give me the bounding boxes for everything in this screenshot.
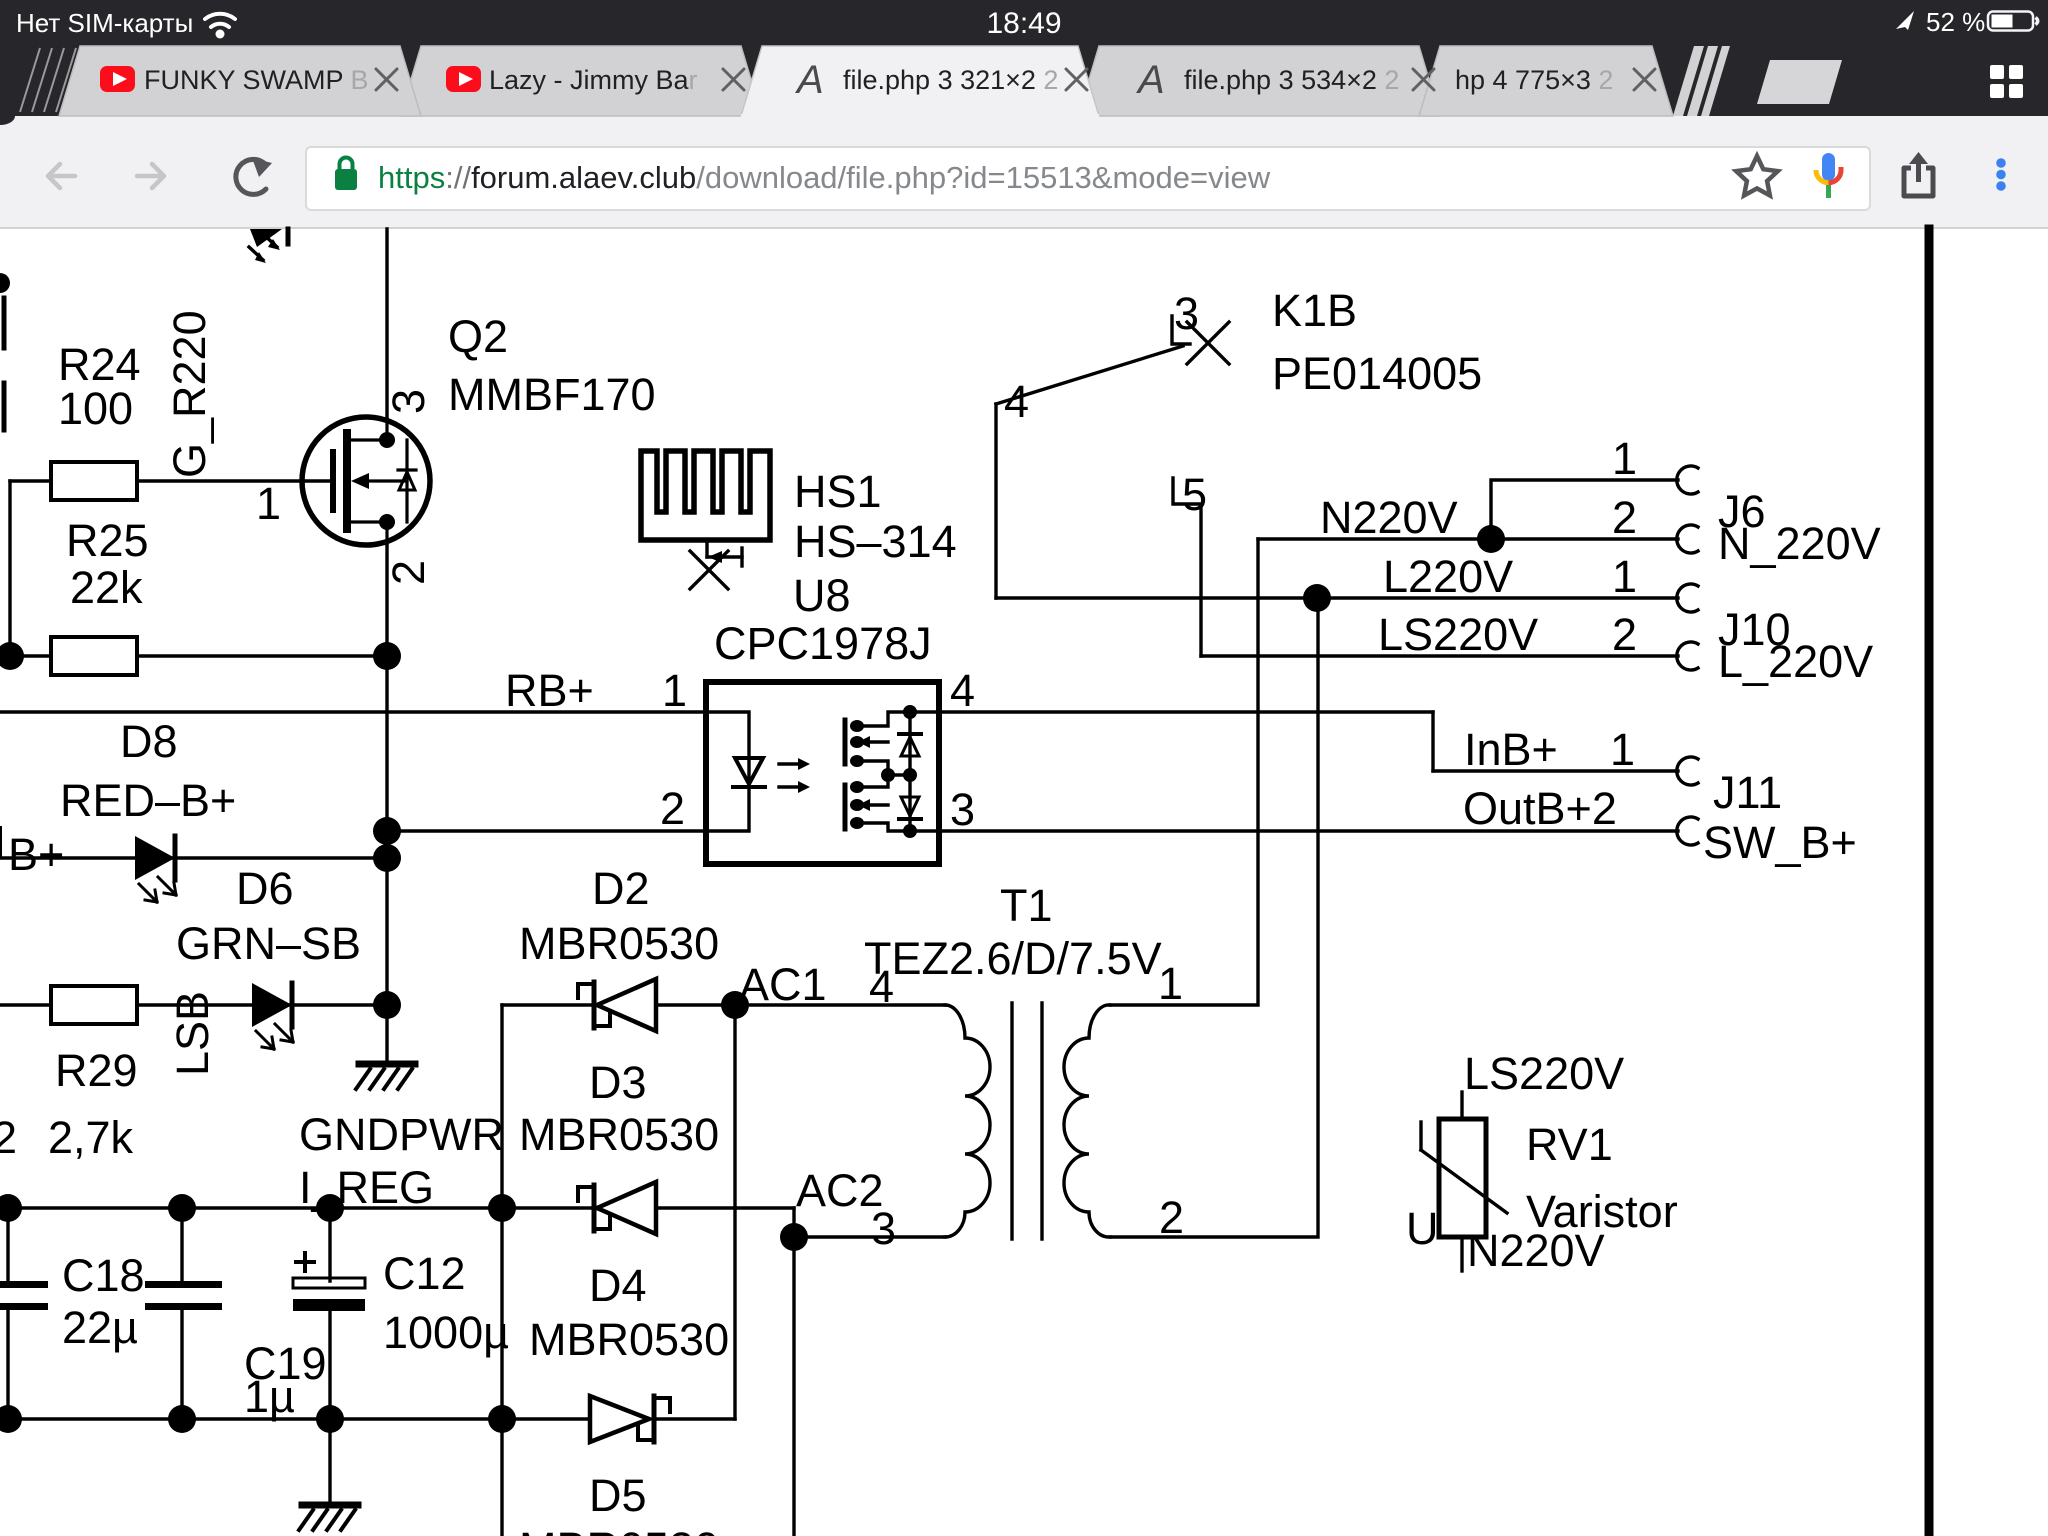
svg-text:2: 2 (0, 1112, 17, 1163)
svg-text:2: 2 (383, 560, 434, 585)
svg-text:OutB+2: OutB+2 (1463, 783, 1617, 834)
capacitor C12 (polarized) (293, 1278, 365, 1288)
node: bus/U8 pin2 junction (373, 817, 401, 845)
node: R25/bus junction (373, 642, 401, 670)
svg-text:U: U (1406, 1203, 1439, 1254)
wire: relay pin 4 vertical (994, 404, 997, 598)
wire: L220V row to J10 pin 1 (996, 596, 1678, 599)
star icon (1736, 156, 1778, 195)
svg-text:2: 2 (1612, 609, 1637, 660)
corner remnant of stacked tabs (0, 116, 15, 125)
svg-text:A: A (1136, 58, 1165, 102)
wire: main vertical bus from Q2 source down to GNDPWR (385, 545, 388, 1063)
transformer T1 primary winding (945, 1005, 990, 1237)
transistor Q2 MOSFET (302, 417, 430, 545)
svg-text:D2: D2 (592, 863, 650, 914)
svg-text:R29: R29 (55, 1045, 138, 1096)
menu dots (1996, 158, 2006, 168)
tab 4 file.php 534 (inactive) (1078, 46, 1440, 116)
wire: D3 to AC2 jog (656, 1206, 794, 1209)
svg-text:RED–B+: RED–B+ (60, 775, 236, 826)
transformer T1 core (1010, 1003, 1013, 1239)
node: N220V junction (1477, 525, 1505, 553)
wire: vertical bus D2-D3 (500, 1005, 503, 1208)
node: AC2 (780, 1223, 808, 1251)
wire: left capacitor bottom lead (6, 1308, 9, 1419)
svg-text:U8: U8 (793, 570, 851, 621)
location arrow (1896, 11, 1914, 30)
back arrow (disabled) (48, 164, 75, 188)
node: C12 bottom junction (316, 1405, 344, 1433)
svg-text:hp 4 775×3 2: hp 4 775×3 2 (1455, 65, 1613, 95)
svg-text:MBR0530: MBR0530 (529, 1314, 729, 1365)
svg-text:4: 4 (1004, 376, 1029, 427)
svg-text:CPC1978J: CPC1978J (714, 618, 932, 669)
svg-text:LS220V: LS220V (1378, 609, 1538, 660)
node: bus/LED D8 junction (373, 844, 401, 872)
svg-text:RV1: RV1 (1526, 1119, 1613, 1170)
wire: N220V row to J6 pin 2 (1258, 537, 1678, 540)
svg-text:4: 4 (950, 665, 975, 716)
svg-text:L220V: L220V (1383, 551, 1513, 602)
cut capacitor at left edge (0, 1281, 48, 1288)
node: D4 bus junction (488, 1405, 516, 1433)
tab 1 FUNKY SWAMP (59, 46, 421, 116)
svg-text:MBR0530: MBR0530 (519, 1109, 719, 1160)
wire: C12 bottom lead (328, 1310, 331, 1419)
svg-text:RB+: RB+ (505, 665, 594, 716)
resistor R24 (51, 462, 137, 500)
svg-text:1: 1 (256, 478, 281, 529)
svg-text:22µ: 22µ (62, 1302, 138, 1353)
svg-text:D5: D5 (589, 1470, 647, 1521)
wire: LS220V row to J10 pin 2 (1201, 654, 1678, 657)
wire: N220V vertical to transformer pin 1 (1110, 539, 1258, 1005)
svg-text:3: 3 (950, 784, 975, 835)
node: bus/LED D6 junction (373, 991, 401, 1019)
svg-text:N220V: N220V (1467, 1225, 1605, 1276)
svg-text:1: 1 (1610, 724, 1635, 775)
svg-text:100: 100 (58, 383, 133, 434)
wire: jog down to InB+ (1431, 712, 1434, 771)
svg-text:1000µ: 1000µ (383, 1307, 509, 1358)
node: AC1 (721, 991, 749, 1019)
wire: R24 left lead (10, 479, 51, 482)
svg-text:MBR0530: MBR0530 (519, 1523, 719, 1536)
svg-text:N_220V: N_220V (1718, 518, 1881, 569)
tab 2 Lazy - Jimmy Bar (400, 46, 762, 116)
svg-text:file.php 3 534×2 2: file.php 3 534×2 2 (1184, 65, 1399, 95)
svg-text:1: 1 (1612, 433, 1637, 484)
LED D6 (252, 983, 293, 1049)
resistor R29 (51, 986, 137, 1024)
wire: L220V vertical to transformer pin 2 (1110, 598, 1318, 1237)
wire: C18 bottom lead (180, 1308, 183, 1419)
svg-text:TEZ2.6/D/7.5V: TEZ2.6/D/7.5V (864, 933, 1162, 984)
battery icon (1988, 12, 2033, 31)
forward arrow (disabled) (137, 164, 164, 188)
wire: C12 ground lead (328, 1419, 331, 1503)
wire: R25 left lead (10, 654, 51, 657)
svg-text:R25: R25 (66, 515, 149, 566)
connector pin arcs J6/J10/J11 (1677, 466, 1698, 845)
wire: left lead of R29 (0, 1003, 51, 1006)
wire: relay pin 5 to LS220V row (1173, 478, 1201, 656)
wire: R24 to Q2 gate (137, 479, 334, 482)
svg-text:MBR0530: MBR0530 (519, 918, 719, 969)
wire: D4 cathode to AC1 vertical (654, 1417, 735, 1420)
tab grid icon (1990, 65, 2023, 98)
node: L220V junction (1303, 584, 1331, 612)
U8 input LED branch (706, 712, 749, 831)
svg-text:A: A (795, 58, 824, 102)
node: R24/R25 left junction (0, 642, 24, 670)
svg-text:MMBF170: MMBF170 (448, 369, 656, 420)
resistor R25 (51, 637, 137, 675)
svg-text:1: 1 (1612, 551, 1637, 602)
wire: U8 pin 3 OutB+ to J11 pin 2 (939, 829, 1678, 832)
wire: vertical bus D3-D4 and down (cut) (500, 1208, 503, 1536)
wire: RB+ net to U8 pin 1 (0, 710, 706, 713)
node: D3 bus junction (488, 1194, 516, 1222)
svg-text:D8: D8 (120, 716, 178, 767)
LED D8 (135, 836, 176, 902)
svg-text:SW_B+: SW_B+ (1703, 817, 1857, 868)
new tab button (1757, 60, 1842, 104)
wire: D2 to AC1 and transformer pin 4 (656, 1003, 945, 1006)
svg-text:C18: C18 (62, 1250, 145, 1301)
svg-text:4: 4 (869, 961, 894, 1012)
tab 2 contents (446, 66, 481, 92)
svg-text:3: 3 (383, 389, 434, 414)
wire: InB+ to J11 pin 1 (1433, 769, 1678, 772)
url field (306, 147, 1870, 210)
svg-text:GNDPWR: GNDPWR (299, 1109, 504, 1160)
svg-text:G_R220: G_R220 (164, 310, 215, 478)
svg-text:InB+: InB+ (1464, 724, 1558, 775)
wire: AC2 jog down (792, 1208, 795, 1237)
wire: vertical AC1 to D4 row (733, 1005, 736, 1419)
svg-text:3: 3 (871, 1203, 896, 1254)
svg-text:B+: B+ (8, 829, 64, 880)
varistor RV1 top stub (1460, 1092, 1463, 1119)
wire: C12 top lead (328, 1208, 331, 1281)
svg-text:https://forum.alaev.club/downl: https://forum.alaev.club/download/file.p… (378, 160, 1271, 195)
wire: left vertical R24-R25 (8, 481, 11, 656)
svg-text:Нет SIM-карты: Нет SIM-карты (16, 8, 193, 38)
svg-text:K1B: K1B (1272, 285, 1357, 336)
cut LED D7 fragment at top edge (250, 229, 282, 247)
capacitor C18 (145, 1281, 222, 1288)
share icon (1904, 158, 1933, 196)
ground GNDPWR (356, 1064, 415, 1089)
node: C18 bottom junction (168, 1405, 196, 1433)
wire: relay blade (996, 346, 1183, 404)
wire: relay pin 3 stub (1172, 316, 1190, 344)
svg-text:LSB: LSB (167, 991, 218, 1076)
svg-text:AC1: AC1 (739, 959, 827, 1010)
transformer T1 secondary winding (1064, 1005, 1110, 1237)
heatsink HS1 (641, 451, 770, 540)
relay K1B contact cross (pin 3) (1187, 322, 1229, 364)
opto relay U8 CPC1978J body (706, 682, 939, 864)
svg-text:HS–314: HS–314 (794, 516, 957, 567)
wire: D2 anode row from bus corner (502, 1003, 594, 1006)
U8 body diodes (908, 712, 911, 831)
svg-text:GRN–SB: GRN–SB (176, 918, 361, 969)
schematic sheet border (1925, 229, 1934, 1536)
varistor RV1 bottom stub (1460, 1237, 1463, 1271)
svg-text:1: 1 (662, 665, 687, 716)
stacked tab edges left (20, 48, 76, 112)
node: bottom bus left junction (0, 1405, 22, 1433)
tab 5 php 775 (inactive) (1419, 46, 1673, 116)
wire: I_REG bus (0, 1206, 502, 1209)
lock icon (335, 169, 357, 190)
mic icon (1822, 153, 1835, 181)
reload (236, 159, 266, 194)
diode D4 MBR0530 (590, 1396, 670, 1442)
svg-text:D6: D6 (236, 863, 294, 914)
wire: D3 anode lead (502, 1206, 594, 1209)
svg-text:J11: J11 (1713, 767, 1782, 818)
node: cut junction at left edge (0, 273, 10, 293)
svg-text:2: 2 (660, 783, 685, 834)
node: I_REG bus left junction (0, 1194, 22, 1222)
svg-text:18:49: 18:49 (986, 7, 1061, 40)
cut wires at left edge (2, 298, 7, 348)
wire: B+ through LED D8 to bus (0, 856, 387, 859)
wire: bottom bus to D4 anode (0, 1417, 590, 1420)
svg-text:52 %: 52 % (1926, 7, 1985, 37)
wifi icon (205, 14, 235, 27)
wire: vertical from AC2 down (to D5, cut) (792, 1237, 795, 1536)
svg-text:Q2: Q2 (448, 311, 508, 362)
svg-text:2: 2 (1159, 1192, 1184, 1243)
svg-text:HS1: HS1 (794, 466, 882, 517)
svg-text:L_220V: L_220V (1718, 636, 1873, 687)
diode D3 MBR0530 (578, 1182, 656, 1234)
status + tab bar dark background (0, 0, 2048, 116)
svg-text:Lazy - Jimmy Bar: Lazy - Jimmy Bar (489, 65, 698, 95)
svg-text:5: 5 (1182, 469, 1207, 520)
U8 light arrows (779, 762, 804, 765)
U8 output MOSFET pair (857, 712, 939, 726)
wire: left capacitor top lead (6, 1208, 9, 1283)
svg-text:2: 2 (1612, 492, 1637, 543)
svg-text:C12: C12 (383, 1248, 466, 1299)
URL bar background (0, 116, 2048, 229)
svg-text:D4: D4 (589, 1260, 647, 1311)
svg-text:2,7k: 2,7k (48, 1112, 134, 1163)
svg-text:1µ: 1µ (244, 1371, 295, 1422)
svg-text:I_REG: I_REG (299, 1162, 434, 1213)
svg-text:D3: D3 (589, 1057, 647, 1108)
svg-text:PE014005: PE014005 (1272, 348, 1482, 399)
wire: AC2 to transformer pin 3 (794, 1235, 945, 1238)
svg-text:N220V: N220V (1320, 492, 1458, 543)
wire: main vertical bus into Q2 drain (385, 229, 388, 417)
wire: R25 right lead to bus (137, 654, 387, 657)
wire: U8 pin 4 row (939, 710, 1433, 713)
svg-text:LS220V: LS220V (1464, 1048, 1624, 1099)
node: C12/I_REG junction (316, 1194, 344, 1222)
svg-text:22k: 22k (70, 562, 143, 613)
wire: bus to U8 pin 2 (387, 829, 706, 832)
svg-text:3: 3 (1174, 288, 1199, 339)
wire: C18 top lead (180, 1208, 183, 1283)
svg-text:T1: T1 (1000, 880, 1053, 931)
node: C18 top junction (168, 1194, 196, 1222)
diode D2 MBR0530 (578, 979, 656, 1031)
svg-text:file.php 3 321×2 2: file.php 3 321×2 2 (843, 65, 1058, 95)
ground at C12 (299, 1505, 358, 1530)
svg-text:FUNKY SWAMP B: FUNKY SWAMP B (144, 65, 369, 95)
varistor RV1 (1421, 1119, 1507, 1237)
wire: R29 through LED D6 to bus (137, 1003, 387, 1006)
tab 3 active file.php 321 (741, 46, 1099, 116)
svg-text:1: 1 (1158, 958, 1183, 1009)
wire: J6 pin 1 row (1491, 480, 1678, 539)
